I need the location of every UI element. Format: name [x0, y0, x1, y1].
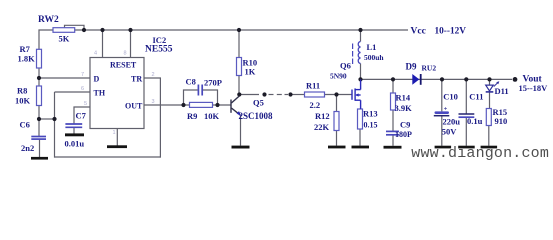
wire R15 bottom to ground: [488, 126, 490, 146]
wire output rail: [361, 78, 513, 80]
wire R8 bottom to node B: [38, 106, 40, 120]
svg-text:R9: R9: [187, 111, 197, 121]
wire R7 bottom to node A: [38, 68, 40, 86]
diode D11 indicator arrow: [494, 82, 499, 87]
wire C10 bottom to ground: [441, 116, 443, 146]
node Vout terminal: [513, 77, 518, 82]
svg-text:2: 2: [152, 72, 155, 78]
svg-text:50V: 50V: [442, 127, 458, 137]
capacitor C10 electrolytic plates: [435, 111, 450, 114]
transistor Q5 2SC1008 NPN: [231, 96, 240, 115]
svg-text:0.1u: 0.1u: [467, 116, 483, 126]
node R10 rail junction: [237, 28, 241, 32]
svg-text:www.diangon.com: www.diangon.com: [411, 145, 549, 162]
node Q6 drain junction: [358, 77, 362, 81]
node pin4 rail junction: [100, 28, 104, 32]
svg-text:3.9K: 3.9K: [395, 103, 413, 113]
node pin8 rail junction: [128, 28, 132, 32]
resistor R9 body: [190, 102, 213, 107]
ground R13: [352, 146, 370, 149]
resistor R7 body: [37, 49, 42, 68]
svg-text:0.15: 0.15: [364, 121, 378, 130]
capacitor C11 plates: [459, 113, 475, 115]
wire C6 bottom lead to ground: [39, 139, 41, 157]
wire RW2 wiper loop: [65, 25, 85, 30]
svg-text:R7: R7: [20, 44, 31, 54]
wire Vcc top rail: [75, 29, 409, 31]
wire D11 to R15: [489, 93, 491, 109]
wire R12 top lead: [336, 95, 338, 112]
wire pin5 to C7: [74, 107, 90, 124]
wire R9 right lead to Q5 base: [213, 104, 231, 106]
svg-text:C11: C11: [469, 92, 483, 102]
capacitor C7 plates: [65, 124, 82, 127]
svg-text:4: 4: [94, 51, 97, 57]
wire C8 right lead: [203, 90, 218, 105]
node R9-C8 right junction: [215, 103, 219, 107]
svg-text:15--18V: 15--18V: [519, 83, 549, 93]
node RW2 wiper junction: [82, 28, 86, 32]
wire TH-TR loop left vertical: [54, 92, 56, 158]
inductor L1 core dashed line: [352, 44, 354, 65]
svg-text:Q6: Q6: [340, 61, 351, 71]
IC IC2 NE555 timer box: [90, 58, 144, 129]
wire R11 to gate node: [325, 94, 353, 96]
svg-text:R13: R13: [363, 109, 378, 119]
wire C8 branch: [184, 90, 198, 105]
wire R10 bottom to collector node: [238, 76, 240, 95]
resistor R8 body: [37, 86, 42, 106]
svg-text:C10: C10: [443, 92, 458, 102]
wire RW2 left lead to R7: [39, 30, 53, 49]
transistor Q6 5N90 MOSFET: [352, 79, 361, 109]
ground IC2 pin1: [107, 145, 127, 148]
wire R12 bottom to ground: [336, 131, 338, 146]
wire collector node solid segment: [239, 94, 259, 96]
wire C6 top lead: [38, 119, 40, 137]
svg-text:TR: TR: [131, 75, 142, 84]
node OUT-C8 junction: [181, 103, 185, 107]
svg-text:220u: 220u: [443, 117, 461, 127]
node B loop junction: [52, 117, 56, 121]
wire pin4 from rail: [102, 30, 104, 58]
node dashed wire dot 2: [288, 92, 292, 96]
svg-text:D11: D11: [495, 86, 509, 96]
svg-text:10--12V: 10--12V: [435, 27, 467, 37]
inductor L1 coil: [358, 42, 360, 64]
resistor R11 body: [305, 92, 325, 97]
svg-text:5K: 5K: [59, 34, 70, 44]
wire C10 top lead: [441, 79, 443, 111]
svg-text:D9: D9: [406, 62, 417, 72]
resistor R10 body: [237, 58, 242, 76]
resistor R14 body: [391, 93, 396, 110]
svg-text:C9: C9: [400, 120, 410, 130]
svg-text:1: 1: [113, 130, 116, 136]
svg-text:2SC1008: 2SC1008: [239, 111, 274, 121]
svg-text:R8: R8: [17, 86, 27, 96]
wire R14 top lead: [392, 79, 394, 93]
svg-text:R12: R12: [315, 111, 330, 121]
svg-text:C6: C6: [20, 120, 30, 130]
capacitor C8 plates: [198, 85, 202, 96]
wire TH-TR loop bottom: [54, 156, 161, 158]
ground C10: [435, 146, 452, 149]
svg-text:R14: R14: [396, 93, 411, 103]
wire OUT pin to R9 network: [144, 104, 190, 106]
svg-text:D: D: [94, 75, 100, 84]
wire R14 bottom to C9: [392, 110, 394, 131]
wire C11 bottom to ground: [465, 117, 467, 146]
ground C7: [65, 133, 84, 136]
svg-text:+: +: [444, 106, 448, 113]
wire node A to pin D: [39, 77, 90, 79]
svg-text:10K: 10K: [204, 111, 220, 121]
svg-text:6: 6: [81, 86, 84, 92]
resistor R12 body: [334, 112, 339, 131]
ground R15: [481, 146, 498, 149]
wire TH pin: [55, 91, 91, 93]
svg-text:TH: TH: [94, 89, 106, 98]
svg-text:1K: 1K: [245, 67, 256, 77]
node L1 rail junction: [358, 28, 362, 32]
resistor R15 body: [486, 109, 491, 126]
svg-text:RW2: RW2: [38, 15, 59, 25]
node C10 junction: [440, 77, 444, 81]
transistor Q6 body arrow: [355, 93, 358, 96]
wire Q5 collector to node: [238, 95, 240, 97]
svg-text:RU2: RU2: [422, 64, 437, 73]
svg-text:Vcc: Vcc: [411, 27, 426, 37]
svg-text:R11: R11: [306, 81, 320, 91]
wire R13 bottom to ground: [359, 129, 361, 146]
resistor R13 body: [358, 109, 363, 129]
capacitor C6 plates: [31, 137, 46, 140]
ground C11: [458, 146, 475, 149]
node R14 junction: [391, 77, 395, 81]
wire C7 bottom lead: [73, 127, 75, 133]
wire Q5 emitter to ground: [240, 115, 242, 145]
wire L1 top from rail: [360, 30, 362, 42]
svg-text:2.2: 2.2: [310, 100, 321, 110]
ground C6: [31, 157, 48, 160]
svg-text:C8: C8: [186, 77, 196, 87]
svg-text:RESET: RESET: [110, 61, 137, 70]
svg-text:10K: 10K: [15, 96, 31, 106]
wire pin8 from rail: [130, 30, 132, 58]
svg-text:1.8K: 1.8K: [18, 54, 36, 64]
wire TR pin: [144, 77, 161, 79]
diode D11: [486, 85, 494, 91]
wire R10 top from rail: [238, 30, 240, 58]
capacitor C9 plates: [386, 131, 399, 134]
node D11 junction: [487, 77, 491, 81]
node C11 junction: [464, 77, 468, 81]
svg-text:7: 7: [81, 72, 84, 78]
wire node B to TH loop: [39, 118, 55, 120]
svg-text:NE555: NE555: [145, 45, 173, 55]
svg-text:8: 8: [124, 51, 127, 57]
svg-text:2n2: 2n2: [21, 143, 34, 153]
wire C9 bottom to ground: [392, 135, 394, 146]
svg-text:L1: L1: [367, 42, 377, 52]
transistor Q5 emitter arrow: [237, 111, 241, 116]
ground Q5 emitter: [232, 146, 250, 149]
node dashed wire dot 1: [262, 92, 266, 96]
wire TH-TR loop right vertical: [159, 78, 161, 158]
node B R8-C6 junction: [37, 117, 41, 121]
wire to R11: [291, 94, 305, 96]
wire D11 top lead: [489, 79, 491, 85]
svg-text:3: 3: [152, 99, 155, 105]
node R12 gate junction: [334, 92, 338, 96]
svg-text:22K: 22K: [314, 122, 330, 132]
svg-text:180P: 180P: [395, 130, 412, 139]
wire L1 bottom to drain node: [360, 64, 362, 80]
wire C11 top lead: [465, 79, 467, 114]
resistor RW2 potentiometer body: [53, 28, 75, 33]
svg-text:500uh: 500uh: [364, 53, 384, 62]
wire dashed continuation: [269, 94, 274, 96]
ground C9: [384, 146, 402, 149]
svg-text:C7: C7: [76, 111, 87, 121]
node Q5 collector junction: [237, 92, 241, 96]
wire pin1 to ground: [116, 129, 118, 146]
svg-text:Q5: Q5: [253, 98, 264, 108]
ground R12: [328, 146, 346, 149]
svg-text:5: 5: [84, 101, 87, 107]
diode D9 RU2: [412, 74, 419, 85]
svg-text:270P: 270P: [204, 78, 222, 88]
svg-text:910: 910: [495, 116, 508, 126]
node A R7-R8-D junction: [37, 76, 41, 80]
svg-text:OUT: OUT: [125, 102, 143, 111]
svg-text:5N90: 5N90: [330, 72, 347, 81]
svg-text:0.01u: 0.01u: [65, 139, 85, 149]
